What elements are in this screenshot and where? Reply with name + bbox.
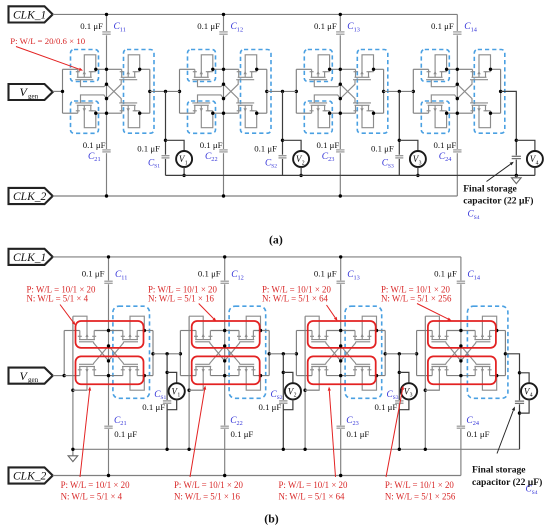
node: CLK_2 junction stage 2 (fig b) [223,474,226,477]
red highlight box: PMOS pair (stage 3, fig b) [308,321,376,348]
svg-text:1: 1 [185,161,188,167]
wire: bottom-left body staple (stage 4, fig b) [425,389,439,391]
svg-text:0.1 μF: 0.1 μF [431,21,454,31]
dashed outline box (right transistor pair, stage 3, fig b) [345,306,382,398]
wire: stage 4 pump column CLK_1 to CLK_2 (fig a) [456,14,458,196]
capacitor C11 0.1uF (fig a) [102,31,112,35]
wire: Vgen to stage 1 input (fig b) [53,375,64,377]
transistor N2a (NMOS, stage 2 bottom-left, fig a) [192,103,214,128]
svg-text:0.1 μF: 0.1 μF [258,402,281,412]
wire: stage 2 pump column CLK_1 to CLK_2 (fig b) [224,257,226,476]
wire: CLK_1 rail (fig a) [53,13,458,15]
dashed outline box (bottom-left transistor, stage 2, fig a) [188,101,216,133]
svg-text:N: W/L = 5/1 × 4: N: W/L = 5/1 × 4 [27,294,89,304]
voltage probe V1 (fig b) [167,372,177,383]
node: CLK_2 junction stage 3 (fig b) [339,474,342,477]
ground symbol (fig a) [515,175,517,177]
svg-text:2: 2 [302,161,305,167]
wire: stage 3 top rail segments (fig a) [296,68,311,70]
capacitor C23 0.1uF (fig b) [336,425,346,429]
node: CLK_1 junction stage 2 (fig a) [222,13,225,16]
transistor P3b (PMOS, stage 3 top-right, fig b) [353,316,378,339]
wire: stage 1 input node vertical (fig a) [62,69,64,113]
node: CLK_1 junction stage 3 (fig a) [339,13,342,16]
node: stage 4 internal junctions (fig b) [459,329,462,332]
dashed outline box (bottom-left transistor, stage 4, fig a) [421,101,449,133]
node: stage 2 internal junctions (fig b) [223,329,226,332]
wire: stage 1 input vertical (fig b) [63,331,65,376]
transistor N1a (NMOS, stage 1 bottom-left, fig b) [73,367,96,391]
svg-text:Final storage: Final storage [472,465,526,476]
voltage probe V4 (fig a) [516,140,535,151]
transistor P2b (PMOS, stage 2 top-right, fig b) [237,316,262,339]
svg-text:N: W/L = 5/1 × 64: N: W/L = 5/1 × 64 [262,294,329,304]
Vgen input flag (fig a) [9,84,53,100]
node: CLK_1 junction stage 1 (fig a) [105,13,108,16]
annotation arrow to final storage capacitor (fig b) [497,410,513,453]
red highlight box: PMOS pair (stage 1, fig b) [76,321,144,348]
capacitor C14 0.1uF (fig a) [452,31,462,35]
transistor P3b (PMOS, stage 3 top-right, fig a) [353,55,375,80]
transistor P1b (PMOS, stage 1 top-right, fig a) [119,55,141,80]
wire: stage 1 bottom rail segments (fig a) [63,112,78,114]
wire: cross-coupling diagonal to bottom-right gate (stage 1, fig a) [107,84,122,103]
svg-text:0.1 μF: 0.1 μF [347,429,370,439]
wire: gate cross-coupling right X (stage 4, fig b) [461,342,476,361]
transistor P4b (PMOS, stage 4 top-right, fig a) [470,55,492,80]
capacitor CS1 storage 0.1uF (fig a) [165,91,167,175]
svg-text:0.1 μF: 0.1 μF [374,402,397,412]
CLK_1 input flag (fig b) [9,249,53,265]
wire: cross-coupling diagonal to top-right gate (stage 3, fig a) [340,80,355,99]
capacitor CS3 storage 0.1uF (fig b) [398,354,400,450]
wire: Vgen to stage 1 input (fig a) [53,90,63,92]
wire: gate bars (stage 2, fig b) [195,341,210,343]
wire: gate cross-coupling right X (stage 3, fig b) [341,342,356,361]
transistor N1b (NMOS, stage 1 bottom-right, fig a) [119,103,141,128]
red highlight box: PMOS pair (stage 2, fig b) [192,321,260,348]
svg-text:(b): (b) [264,512,278,526]
dashed outline box (right transistor pair, stage 3, fig a) [357,50,388,134]
wire: stage 2 pump column CLK_1 to CLK_2 (fig a) [223,14,225,196]
svg-text:14: 14 [471,26,478,33]
svg-text:11: 11 [120,26,126,33]
capacitor C24 0.1uF (fig b) [456,425,466,429]
svg-text:0.1 μF: 0.1 μF [433,140,456,150]
svg-text:2: 2 [294,393,297,399]
transistor N2b (NMOS, stage 2 bottom-right, fig a) [236,103,258,128]
svg-text:S3: S3 [388,164,394,170]
wire: bottom-left body staple (stage 3, fig b) [305,389,319,391]
wire: stage 3 output node vertical (fig a) [383,69,385,113]
wire: gate cross-coupling left X (stage 3, fig b) [326,342,341,361]
svg-text:0.1 μF: 0.1 μF [467,429,490,439]
svg-text:3: 3 [419,161,422,167]
capacitor C11 0.1uF (fig b) [104,280,114,284]
wire: stage 3 top rail segments (fig b) [296,330,312,332]
transistor P2b (PMOS, stage 2 top-right, fig a) [236,55,258,80]
wire: body tie column to ground (stage 4, fig b) [424,316,426,449]
transistor P1a (PMOS, stage 1 top-left, fig b) [73,316,96,339]
red annotation arrow to PMOS (fig a) [16,47,79,70]
wire: gate cross-coupling right X (stage 1, fig b) [109,342,124,361]
wire: stage 2 bottom rail segments (fig a) [180,112,195,114]
svg-text:N: W/L = 5/1 × 16: N: W/L = 5/1 × 16 [174,491,241,501]
wire: stage 3 input vertical (fig b) [295,331,297,376]
capacitor C24 0.1uF (fig a) [452,149,462,153]
wire: inter-stage node 2 to storage tap (fig a) [267,90,297,92]
dashed outline box (right transistor pair, stage 4, fig a) [474,50,505,134]
capacitor C13 0.1uF (fig a) [335,31,345,35]
wire: ground return rail (fig b) [73,448,520,450]
wire: CLK_2 rail (fig a) [53,195,458,197]
svg-text:Final storage: Final storage [463,183,517,194]
transistor N4b (NMOS, stage 4 bottom-right, fig a) [470,103,492,128]
transistor N3b (NMOS, stage 3 bottom-right, fig a) [353,103,375,128]
node: CLK_1 junction stage 3 (fig b) [339,255,342,258]
svg-text:gen: gen [28,376,39,384]
transistor P1a (PMOS, stage 1 top-left, fig a) [75,55,97,80]
wire: body tie column to ground (stage 1, fig b) [72,316,74,449]
node: CLK_2 junction stage 1 (fig a) [105,194,108,197]
svg-text:12: 12 [238,274,244,281]
wire: body tie column to ground (stage 3, fig b) [304,316,306,449]
wire: cross-coupling diagonal to bottom-right gate (stage 4, fig a) [457,84,472,103]
wire: stage 1 output node vertical (fig a) [149,69,151,113]
capacitor C14 0.1uF (fig b) [456,280,466,284]
wire: gate bars (stage 3, fig b) [311,341,326,343]
svg-text:S4: S4 [474,215,480,221]
wire: stage 4 bottom rail segments (fig b) [417,375,433,377]
capacitor C13 0.1uF (fig b) [336,280,346,284]
svg-text:23: 23 [328,156,334,163]
wire: gate of bottom-left transistor to node (stage 3, fig a) [314,95,340,103]
wire: stage 2 input node vertical (fig a) [179,69,181,113]
wire: stage 4 pump column CLK_1 to CLK_2 (fig b) [460,257,462,476]
red annotation arrow to PMOS pair stage 1 (fig b) [60,305,73,323]
wire: stage 1 pump column CLK_1 to CLK_2 (fig b) [108,257,110,476]
transistor P3a (PMOS, stage 3 top-left, fig a) [309,55,331,80]
capacitor C12 0.1uF (fig b) [220,280,230,284]
voltage probe V4 (fig b) [520,373,530,383]
svg-text:S1: S1 [154,164,160,170]
transistor N3a (NMOS, stage 3 bottom-left, fig b) [305,367,328,391]
transistor P4a (PMOS, stage 4 top-left, fig a) [426,55,448,80]
transistor N2a (NMOS, stage 2 bottom-left, fig b) [189,367,212,391]
svg-text:0.1 μF: 0.1 μF [371,143,394,153]
wire: gate cross-coupling left X (stage 4, fig b) [446,342,461,361]
svg-text:N: W/L = 5/1 × 256: N: W/L = 5/1 × 256 [381,294,452,304]
transistor N4a (NMOS, stage 4 bottom-left, fig a) [426,103,448,128]
svg-text:S4: S4 [532,490,538,496]
wire: stage 4 input vertical (fig b) [416,331,418,376]
svg-text:P: W/L = 10/1 × 20: P: W/L = 10/1 × 20 [279,480,348,490]
svg-text:P: W/L = 10/1 × 20: P: W/L = 10/1 × 20 [61,480,130,490]
red highlight box: NMOS pair (stage 4, fig b) [428,356,496,384]
svg-text:N: W/L = 5/1 × 64: N: W/L = 5/1 × 64 [279,491,346,501]
wire: bottom-left body staple (stage 2, fig b) [189,389,203,391]
wire: bottom-left body staple (stage 1, fig b) [73,389,87,391]
wire: inter-stage node 3 (fig b) [385,353,416,355]
svg-text:0.1 μF: 0.1 μF [114,429,137,439]
svg-text:P: W/L = 10/1 × 20: P: W/L = 10/1 × 20 [174,480,243,490]
svg-text:1: 1 [177,393,180,399]
node: CLK_1 junction stage 2 (fig b) [223,255,226,258]
capacitor CS4 final storage 22uF (fig a) [511,155,521,159]
dashed outline box (right transistor pair, stage 1, fig b) [113,306,150,398]
svg-text:S3: S3 [393,395,399,401]
transistor P2a (PMOS, stage 2 top-left, fig b) [189,316,212,339]
wire: CLK_1 rail (fig b) [53,256,461,258]
capacitor C23 0.1uF (fig a) [335,149,345,153]
wire: stage 4 bottom rail segments (fig a) [413,112,428,114]
red annotation arrow to PMOS pair stage 4 (fig b) [417,304,448,319]
wire: cross-coupling diagonal to top-right gate (stage 1, fig a) [107,80,122,99]
svg-text:CLK_2: CLK_2 [13,471,46,483]
svg-text:CLK_1: CLK_1 [13,10,46,22]
wire: stage 4 input node vertical (fig a) [412,69,414,113]
wire: gate of top-left transistor to node (stage 2, fig a) [198,80,224,87]
svg-text:0.1 μF: 0.1 μF [82,269,105,279]
capacitor CS1 storage 0.1uF (fig b) [166,354,168,450]
capacitor CS4 final storage 22uF (fig b) [515,400,525,404]
capacitor C21 0.1uF (fig a) [102,149,112,153]
wire: stage 4 top rail segments (fig b) [417,330,433,332]
ground symbol (fig b) [72,449,74,456]
svg-text:24: 24 [445,156,452,163]
dashed outline box (right transistor pair, stage 4, fig b) [467,306,508,398]
node: stage 4 internal junctions (fig a) [456,68,459,71]
dashed outline box (bottom-left transistor, stage 3, fig a) [304,101,332,133]
wire: stage 3 pump column CLK_1 to CLK_2 (fig b) [340,257,342,476]
node: CLK_2 junction stage 3 (fig a) [339,194,342,197]
node: stage 1 internal junctions (fig a) [105,68,108,71]
wire: gate of top-left transistor to node (stage 3, fig a) [314,80,340,87]
wire: stage 1 pump column CLK_1 to CLK_2 (fig a) [106,14,108,196]
wire: cross-coupling diagonal to bottom-right gate (stage 3, fig a) [340,84,355,103]
svg-text:21: 21 [120,420,126,427]
transistor P1b (PMOS, stage 1 top-right, fig b) [121,316,146,339]
node: stage 1 internal junctions (fig b) [107,329,110,332]
svg-text:23: 23 [353,420,359,427]
PMOS/NMOS dashed outline box (top-left transistor, stage 4, fig a) [421,50,449,82]
svg-text:4: 4 [536,161,539,167]
svg-text:P: W/L = 10/1 × 20: P: W/L = 10/1 × 20 [385,480,454,490]
transistor N2b (NMOS, stage 2 bottom-right, fig b) [237,367,262,391]
svg-text:4: 4 [530,393,533,399]
CLK_2 input flag (fig b) [9,467,53,483]
svg-text:gen: gen [28,92,39,100]
node: CLK_2 junction stage 2 (fig a) [222,194,225,197]
Vgen input flag (fig b) [9,368,53,384]
wire: cross-coupling diagonal to bottom-right gate (stage 2, fig a) [224,84,239,103]
svg-text:N: W/L = 5/1 × 256: N: W/L = 5/1 × 256 [385,491,456,501]
wire: stage 2 output vertical (fig b) [268,331,270,376]
svg-text:0.1 μF: 0.1 μF [314,269,337,279]
red annotation arrow to NMOS pair stage 4 (fig b) [386,390,403,478]
svg-text:21: 21 [94,156,100,163]
svg-text:0.1 μF: 0.1 μF [200,140,223,150]
svg-text:P: W/L = 20/0.6 × 10: P: W/L = 20/0.6 × 10 [10,36,86,46]
capacitor C12 0.1uF (fig a) [219,31,229,35]
svg-text:14: 14 [474,274,481,281]
wire: stage 3 output vertical (fig b) [384,331,386,376]
red annotation arrow to NMOS pair stage 3 (fig b) [329,391,335,477]
wire: stage 3 bottom rail segments (fig a) [296,112,311,114]
svg-text:0.1 μF: 0.1 μF [314,21,337,31]
wire: stage 4 output to final storage node (fig b) [505,354,519,450]
wire: inter-stage node 1 to storage tap (fig a) [150,90,180,92]
PMOS/NMOS dashed outline box (top-left transistor, stage 2, fig a) [188,50,216,82]
red highlight box: NMOS pair (stage 2, fig b) [192,356,260,384]
wire: body tie column to ground (stage 2, fig b) [188,316,190,449]
wire: gate of bottom-left transistor to node (stage 1, fig a) [81,95,107,103]
wire: stage 2 bottom rail segments (fig b) [180,375,196,377]
svg-text:0.1 μF: 0.1 μF [142,402,165,412]
svg-text:0.1 μF: 0.1 μF [137,143,160,153]
wire: gate of top-left transistor to node (stage 4, fig a) [431,80,457,87]
svg-text:capacitor (22 μF): capacitor (22 μF) [463,196,533,207]
svg-text:0.1 μF: 0.1 μF [231,429,254,439]
svg-text:24: 24 [473,420,480,427]
svg-text:capacitor (22 μF): capacitor (22 μF) [472,477,542,488]
wire: stage 4 output to final storage node (fig a) [501,91,517,175]
node: stage 2 internal junctions (fig a) [222,68,225,71]
node: stage 3 internal junctions (fig b) [339,329,342,332]
wire: stage 4 output node vertical (fig a) [500,69,502,113]
svg-text:CLK_2: CLK_2 [13,191,46,203]
svg-text:0.1 μF: 0.1 μF [198,269,221,279]
wire: cross-coupling diagonal to top-right gate (stage 2, fig a) [224,80,239,99]
transistor N3a (NMOS, stage 3 bottom-left, fig a) [309,103,331,128]
voltage probe V2 (fig b) [283,372,293,383]
red annotation arrow to NMOS pair stage 2 (fig b) [190,390,205,478]
capacitor CS3 storage 0.1uF (fig a) [398,91,400,175]
transistor N1b (NMOS, stage 1 bottom-right, fig b) [121,367,146,391]
dashed outline box (bottom-left transistor, stage 1, fig a) [71,101,99,133]
wire: stage 4 output vertical (fig b) [504,331,506,376]
voltage probe V1 (fig a) [166,140,185,151]
wire: inter-stage node 3 to storage tap (fig a) [384,90,414,92]
node: stage 3 internal junctions (fig a) [339,68,342,71]
svg-text:3: 3 [410,393,413,399]
transistor N1a (NMOS, stage 1 bottom-left, fig a) [75,103,97,128]
wire: inter-stage node 1 (fig b) [153,353,180,355]
svg-text:(a): (a) [269,232,283,246]
svg-text:0.1 μF: 0.1 μF [254,143,277,153]
PMOS/NMOS dashed outline box (top-left transistor, stage 3, fig a) [304,50,332,82]
wire: gate cross-coupling left X (stage 2, fig b) [210,342,225,361]
capacitor CS2 storage 0.1uF (fig b) [282,354,284,450]
capacitor C22 0.1uF (fig a) [219,149,229,153]
transistor P2a (PMOS, stage 2 top-left, fig a) [192,55,214,80]
wire: stage 1 top rail segments (fig a) [63,68,78,70]
wire: stage 3 bottom rail segments (fig b) [296,375,312,377]
transistor P3a (PMOS, stage 3 top-left, fig b) [305,316,328,339]
capacitor C21 0.1uF (fig b) [104,425,114,429]
red highlight box: PMOS pair (stage 4, fig b) [428,321,496,348]
red annotation arrow to NMOS pair stage 1 (fig b) [80,391,90,478]
transistor P4b (PMOS, stage 4 top-right, fig b) [473,316,498,339]
svg-text:11: 11 [121,274,127,281]
voltage probe V3 (fig a) [399,140,418,151]
capacitor C22 0.1uF (fig b) [220,425,230,429]
svg-text:0.1 μF: 0.1 μF [316,140,339,150]
svg-text:13: 13 [354,26,360,33]
voltage probe V2 (fig a) [283,140,302,151]
wire: stage 2 top rail segments (fig b) [180,330,196,332]
wire: cross-coupling diagonal to top-right gate (stage 4, fig a) [457,80,472,99]
wire: gate of bottom-left transistor to node (stage 2, fig a) [198,95,224,103]
wire: gate bars (stage 1, fig b) [79,341,94,343]
wire: gate cross-coupling left X (stage 1, fig b) [94,342,109,361]
wire: stage 2 input vertical (fig b) [179,331,181,376]
annotation arrow to final storage capacitor (fig a) [487,164,511,181]
svg-text:CLK_1: CLK_1 [13,252,46,264]
dashed outline box (right transistor pair, stage 1, fig a) [124,50,155,134]
wire: gate bars (stage 4, fig b) [431,341,446,343]
svg-text:N: W/L = 5/1 × 4: N: W/L = 5/1 × 4 [61,491,123,501]
svg-text:S2: S2 [271,164,277,170]
CLK_1 input flag (fig a) [9,6,53,22]
CLK_2 input flag (fig a) [9,188,53,204]
svg-text:0.1 μF: 0.1 μF [434,269,457,279]
transistor P4a (PMOS, stage 4 top-left, fig b) [425,316,448,339]
red highlight box: NMOS pair (stage 3, fig b) [308,356,376,384]
wire: stage 1 top rail segments (fig b) [64,330,80,332]
wire: gate of bottom-left transistor to node (stage 4, fig a) [431,95,457,103]
wire: gate of top-left transistor to node (stage 1, fig a) [81,80,107,87]
transistor N3b (NMOS, stage 3 bottom-right, fig b) [353,367,378,391]
dashed outline box (right transistor pair, stage 2, fig b) [229,306,266,398]
node: CLK_1 junction stage 1 (fig b) [107,255,110,258]
voltage probe V3 (fig b) [399,372,409,383]
wire: stage 1 bottom rail segments (fig b) [64,375,80,377]
svg-text:0.1 μF: 0.1 μF [80,21,103,31]
wire: stage 2 top rail segments (fig a) [180,68,195,70]
svg-text:22: 22 [211,156,217,163]
svg-text:22: 22 [237,420,243,427]
svg-text:S1: S1 [160,395,166,401]
wire: stage 4 top rail segments (fig a) [413,68,428,70]
wire: measurement ground rail (fig a) [166,174,535,176]
capacitor CS2 storage 0.1uF (fig a) [282,91,284,175]
red highlight box: NMOS pair (stage 1, fig b) [76,356,144,384]
svg-text:S2: S2 [277,395,283,401]
red annotation arrow to PMOS pair stage 2 (fig b) [199,304,214,319]
wire: stage 2 output node vertical (fig a) [266,69,268,113]
wire: CLK_2 rail (fig b) [53,475,461,477]
transistor N4b (NMOS, stage 4 bottom-right, fig b) [473,367,498,391]
wire: gate cross-coupling right X (stage 2, fig b) [225,342,240,361]
svg-text:N: W/L = 5/1 × 16: N: W/L = 5/1 × 16 [148,294,215,304]
wire: stage 1 output vertical (fig b) [152,331,154,376]
red annotation arrow to PMOS pair stage 3 (fig b) [327,305,336,318]
svg-text:12: 12 [237,26,243,33]
dashed outline box (right transistor pair, stage 2, fig a) [241,50,272,134]
svg-text:0.1 μF: 0.1 μF [197,21,220,31]
node: CLK_2 junction stage 1 (fig b) [107,474,110,477]
PMOS/NMOS dashed outline box (top-left transistor, stage 1, fig a) [71,50,99,82]
transistor N4a (NMOS, stage 4 bottom-left, fig b) [425,367,448,391]
wire: stage 3 pump column CLK_1 to CLK_2 (fig a) [339,14,341,196]
svg-text:0.1 μF: 0.1 μF [83,140,106,150]
wire: inter-stage node 2 (fig b) [269,353,296,355]
svg-text:13: 13 [354,274,360,281]
wire: stage 3 input node vertical (fig a) [295,69,297,113]
